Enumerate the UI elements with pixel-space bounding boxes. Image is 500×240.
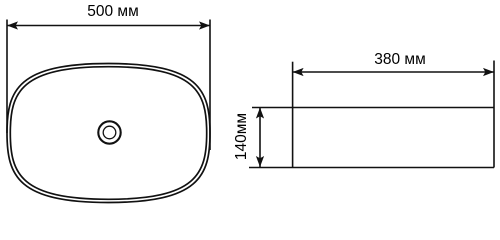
dimension line 140 [259,108,261,168]
dimension line 380 [293,71,494,73]
basin top view: inner bowl rim [10,67,206,200]
svg-text:500 мм: 500 мм [87,3,138,20]
arrowhead 140 top [256,108,264,119]
side view: left edge + extension up [292,62,294,168]
svg-text:380 мм: 380 мм [374,51,425,68]
side view: right edge + extension up [493,61,495,168]
side view: bottom edge + extension left [249,167,494,169]
basin top view: outer rim [7,64,210,203]
drain outer circle [98,121,120,143]
dimension line 500 [7,25,210,27]
side view: top edge + extension left [252,107,494,109]
arrowhead 140 bottom [256,156,264,167]
arrowhead left [7,21,18,29]
extension line left [6,20,8,134]
drain inner circle [103,126,116,139]
extension line right [209,20,211,151]
arrowhead right [199,21,210,29]
arrowhead 380 right [483,68,494,76]
svg-text:140мм: 140мм [233,113,250,160]
arrowhead 380 left [293,68,304,76]
